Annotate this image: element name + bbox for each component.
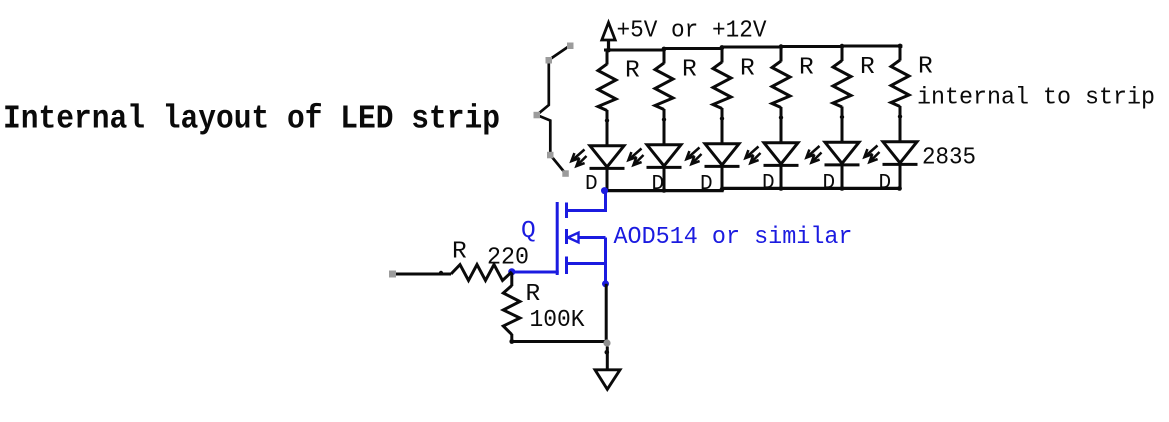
svg-text:R: R [799, 55, 814, 82]
svg-text:Q: Q [521, 218, 536, 245]
LED D3 emission arrow 1 [687, 148, 700, 159]
LED D6 emission arrow 1 [865, 146, 878, 157]
LED D4 cathode bar [764, 164, 799, 167]
wire LED2 to bottom rail [663, 166, 666, 191]
resistor R3 [713, 62, 731, 109]
input terminal handle [389, 271, 396, 278]
wire LED3 to bottom rail [721, 165, 724, 191]
LED D5 cathode bar [825, 163, 860, 166]
node dot under R3 [720, 116, 724, 120]
svg-text:D: D [879, 172, 892, 195]
LED D1 triangle [590, 146, 624, 167]
resistor R2 [655, 63, 673, 110]
LED D6 emission arrow 2 [870, 152, 880, 162]
ground return wire [512, 340, 608, 343]
blue junction dot on source wire [602, 280, 609, 287]
svg-text:Internal layout of LED strip: Internal layout of LED strip [3, 101, 500, 138]
wire to ground symbol [606, 347, 609, 371]
LED D3 emission arrow 2 [692, 154, 702, 164]
LED D5 triangle [825, 142, 859, 163]
brace polyline (selection handles) [534, 43, 574, 177]
wire LED1 to bottom rail [606, 167, 609, 191]
source/body vertical [604, 238, 607, 285]
LED D1 emission arrow 1 [572, 150, 585, 161]
channel stub source [565, 257, 568, 275]
LED D6 triangle [883, 142, 917, 163]
wire R2 to LED2 [663, 109, 666, 146]
svg-text:internal to strip: internal to strip [917, 85, 1155, 112]
svg-text:R: R [452, 239, 467, 266]
wire R3 to LED3 [721, 108, 724, 145]
LED D2 emission arrow 1 [629, 149, 642, 160]
LED D6 cathode bar [883, 163, 918, 166]
top supply rail [604, 46, 901, 50]
LED D1 cathode bar [590, 167, 625, 170]
svg-text:R: R [740, 56, 755, 83]
node dot under R6 [898, 114, 902, 118]
LED D5 emission arrow 2 [812, 153, 822, 163]
MOSFET Q (blue) [508, 187, 609, 287]
LED D5 emission arrow 1 [807, 146, 820, 157]
svg-text:D: D [700, 173, 713, 196]
wire rail to R5 [841, 46, 844, 61]
node dot under R2 [662, 117, 666, 121]
LED D1 emission arrow 2 [577, 156, 587, 166]
svg-text:R: R [918, 54, 933, 81]
svg-text:R: R [682, 57, 697, 84]
resistor R 220 (horizontal) [451, 265, 512, 281]
svg-text:2835: 2835 [922, 145, 976, 172]
LED D4 emission arrow 2 [751, 153, 761, 163]
ground terminal handle [603, 339, 610, 346]
wire LED6 to bottom rail [899, 163, 902, 190]
svg-text:D: D [652, 173, 665, 196]
node dot under R4 [779, 115, 783, 119]
gate wire [512, 271, 559, 274]
bottom cathode rail [605, 188, 902, 190]
input wire [396, 273, 451, 276]
svg-text:D: D [762, 172, 775, 195]
LED D2 triangle [647, 145, 681, 166]
blue junction dot on LED rail [601, 187, 608, 194]
svg-text:AOD514 or similar: AOD514 or similar [614, 224, 853, 251]
svg-text:220: 220 [487, 245, 529, 272]
LED D3 triangle [705, 144, 739, 165]
resistor R5 [833, 61, 851, 108]
svg-text:R: R [625, 58, 640, 85]
LED D4 triangle [764, 143, 798, 164]
resistor R 100K (vertical) [503, 273, 520, 342]
svg-text:D: D [585, 173, 598, 196]
ground symbol [595, 370, 620, 390]
body arrow lead [578, 236, 606, 239]
input wire node [439, 271, 443, 275]
body arrow head [568, 233, 579, 243]
LED D2 emission arrow 2 [634, 155, 644, 165]
wire rail to R6 [899, 46, 902, 61]
gate bar [556, 202, 559, 275]
wire rail to R2 [663, 49, 666, 64]
drain lead [565, 191, 606, 211]
wire rail to R4 [780, 47, 783, 62]
power symbol +5V arrow [602, 23, 615, 52]
channel stub drain [565, 203, 568, 219]
rail junction dots [606, 44, 902, 53]
wire rail to R3 [721, 47, 724, 63]
LED D2 cathode bar [647, 166, 682, 169]
wire R4 to LED4 [780, 107, 783, 144]
wire LED5 to bottom rail [841, 164, 844, 190]
wire R1 to LED1 [606, 110, 609, 147]
wire LED4 to bottom rail [780, 164, 783, 190]
svg-text:+5V or +12V: +5V or +12V [617, 18, 767, 45]
wire rail to R1 [606, 50, 609, 65]
wire R6 to LED6 [899, 106, 902, 143]
node dot under R1 [605, 118, 609, 122]
resistor R6 [891, 60, 909, 107]
LED D4 emission arrow 1 [746, 147, 759, 158]
source lead [565, 262, 606, 265]
channel stub body [565, 229, 568, 244]
LED D3 cathode bar [705, 165, 740, 168]
svg-text:100K: 100K [530, 307, 585, 334]
resistor R4 [772, 61, 790, 108]
node dot under R5 [840, 115, 844, 119]
blue junction dot at gate divider [508, 268, 515, 275]
resistor R1 [598, 64, 616, 111]
source ground wire [605, 284, 608, 342]
svg-text:R: R [526, 281, 541, 308]
wire R5 to LED5 [841, 107, 844, 144]
svg-text:R: R [860, 54, 875, 81]
svg-text:D: D [823, 172, 836, 195]
